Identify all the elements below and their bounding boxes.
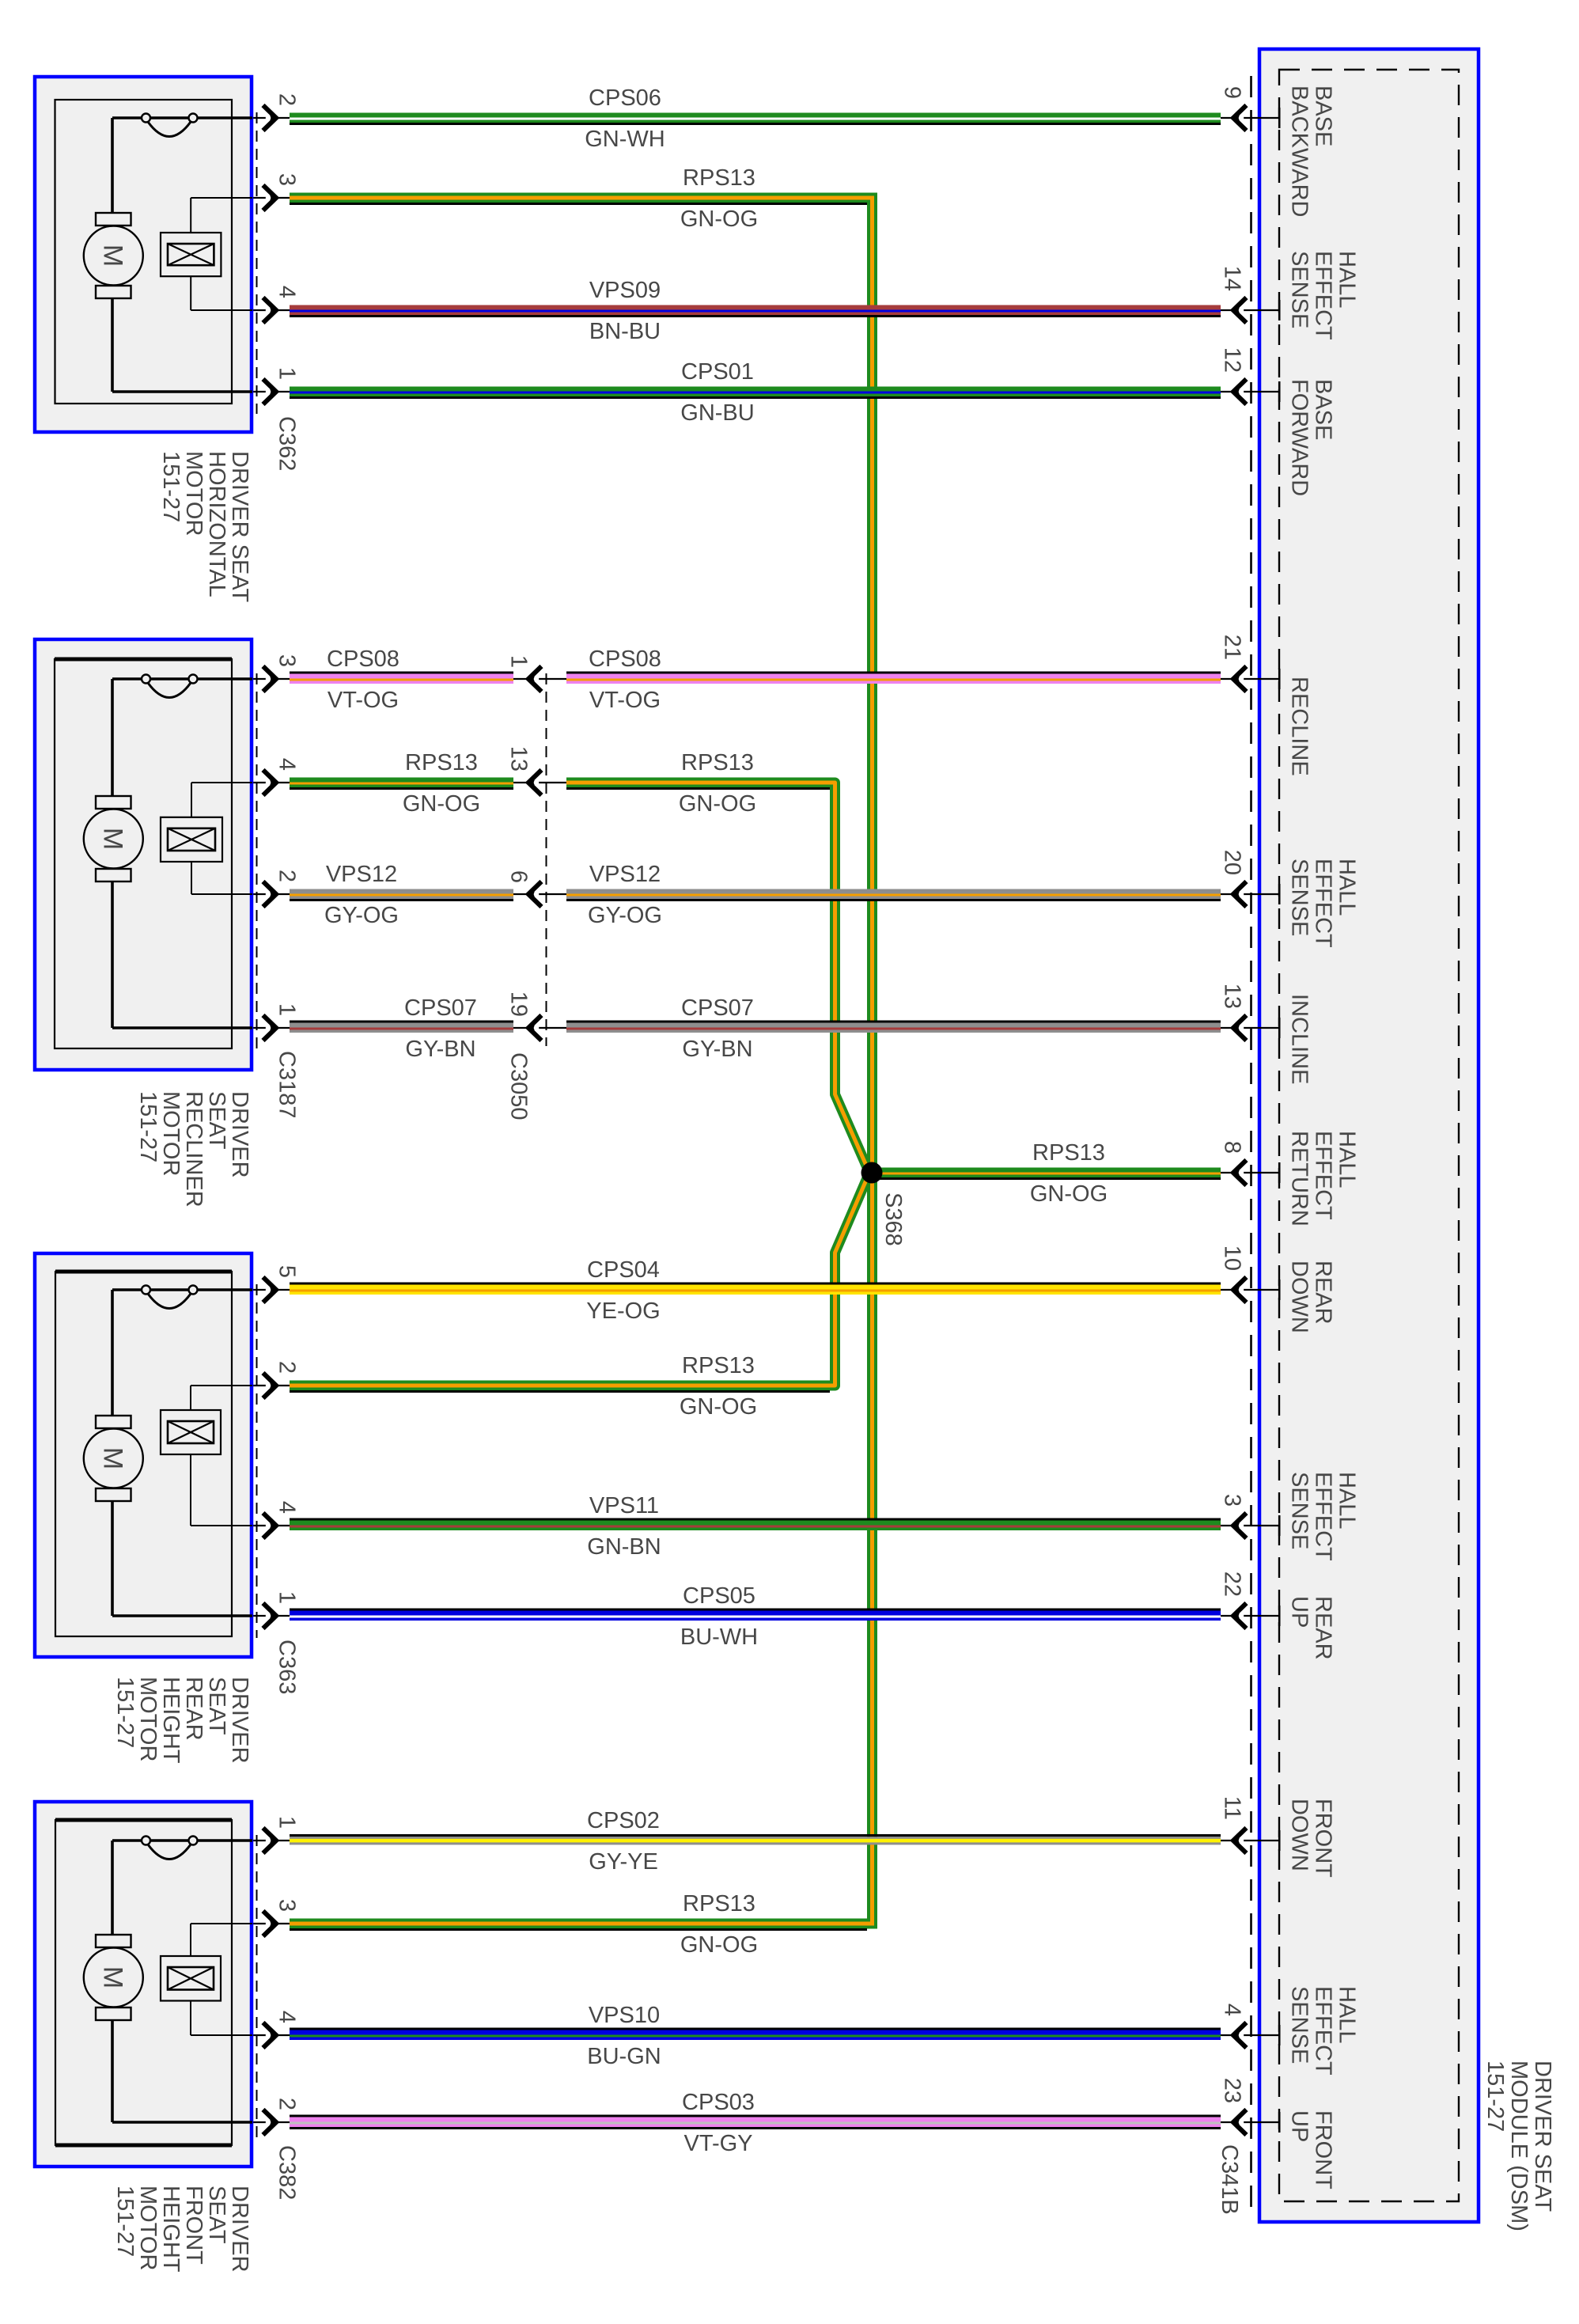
svg-text:SENSE: SENSE — [1287, 1472, 1312, 1549]
svg-text:14: 14 — [1220, 266, 1245, 291]
svg-text:21: 21 — [1220, 635, 1245, 660]
svg-text:2: 2 — [275, 870, 300, 882]
svg-text:13: 13 — [506, 746, 532, 772]
svg-text:GY-OG: GY-OG — [588, 903, 662, 928]
svg-text:FRONT: FRONT — [1311, 2110, 1336, 2189]
svg-text:GN-BN: GN-BN — [587, 1534, 661, 1560]
svg-text:3: 3 — [275, 173, 300, 186]
svg-text:M: M — [97, 828, 127, 850]
svg-text:VT-OG: VT-OG — [589, 688, 661, 713]
svg-text:BU-GN: BU-GN — [587, 2044, 661, 2069]
svg-text:GN-OG: GN-OG — [680, 1932, 758, 1958]
svg-text:CPS08: CPS08 — [327, 646, 399, 672]
svg-text:EFFECT: EFFECT — [1311, 1986, 1336, 2076]
svg-text:GN-OG: GN-OG — [679, 791, 756, 817]
svg-text:151-27: 151-27 — [112, 1677, 138, 1748]
svg-text:RECLINER: RECLINER — [181, 1091, 206, 1207]
svg-text:3: 3 — [1220, 1494, 1245, 1507]
svg-text:FRONT: FRONT — [181, 2186, 206, 2265]
svg-text:C382: C382 — [275, 2145, 300, 2200]
svg-text:BU-WH: BU-WH — [680, 1625, 758, 1650]
svg-text:GY-OG: GY-OG — [324, 903, 399, 928]
svg-text:4: 4 — [275, 1501, 300, 1514]
svg-text:SEAT: SEAT — [204, 1677, 229, 1735]
svg-text:SEAT: SEAT — [204, 1091, 229, 1150]
svg-text:GN-OG: GN-OG — [403, 791, 480, 817]
svg-text:REAR: REAR — [1311, 1261, 1336, 1325]
svg-text:VPS12: VPS12 — [326, 862, 397, 887]
svg-text:RPS13: RPS13 — [1032, 1140, 1105, 1166]
svg-text:CPS02: CPS02 — [587, 1808, 660, 1833]
svg-text:BN-BU: BN-BU — [589, 319, 661, 344]
svg-text:SENSE: SENSE — [1287, 251, 1312, 328]
svg-text:13: 13 — [1220, 984, 1245, 1009]
svg-text:BACKWARD: BACKWARD — [1287, 85, 1312, 218]
svg-text:HORIZONTAL: HORIZONTAL — [204, 451, 229, 597]
svg-text:GN-WH: GN-WH — [585, 127, 665, 152]
svg-text:BASE: BASE — [1311, 85, 1336, 146]
svg-text:151-27: 151-27 — [135, 1091, 161, 1162]
svg-text:23: 23 — [1220, 2078, 1245, 2103]
svg-text:DRIVER SEAT: DRIVER SEAT — [1530, 2061, 1555, 2212]
svg-text:9: 9 — [1220, 86, 1245, 99]
svg-text:FRONT: FRONT — [1311, 1799, 1336, 1878]
svg-text:4: 4 — [275, 758, 300, 771]
svg-text:RPS13: RPS13 — [682, 1353, 755, 1378]
svg-text:EFFECT: EFFECT — [1311, 251, 1336, 340]
svg-text:DRIVER SEAT: DRIVER SEAT — [227, 451, 252, 603]
svg-text:1: 1 — [275, 1816, 300, 1829]
svg-text:UP: UP — [1287, 1596, 1312, 1628]
svg-text:11: 11 — [1220, 1796, 1245, 1820]
svg-text:HALL: HALL — [1335, 251, 1360, 309]
svg-text:INCLINE: INCLINE — [1287, 994, 1312, 1084]
svg-text:2: 2 — [275, 2098, 300, 2110]
svg-text:SEAT: SEAT — [204, 2186, 229, 2244]
svg-text:FORWARD: FORWARD — [1287, 379, 1312, 496]
svg-text:EFFECT: EFFECT — [1311, 859, 1336, 948]
svg-text:S368: S368 — [880, 1192, 906, 1246]
svg-text:CPS06: CPS06 — [589, 85, 661, 111]
svg-text:3: 3 — [275, 1899, 300, 1912]
svg-text:19: 19 — [506, 991, 532, 1017]
svg-text:DOWN: DOWN — [1287, 1261, 1312, 1333]
svg-text:M: M — [97, 245, 127, 267]
svg-text:REAR: REAR — [181, 1677, 206, 1741]
svg-text:1: 1 — [275, 1003, 300, 1016]
svg-text:4: 4 — [1220, 2004, 1245, 2016]
svg-text:VPS09: VPS09 — [589, 278, 661, 303]
svg-text:10: 10 — [1220, 1245, 1245, 1271]
svg-text:SENSE: SENSE — [1287, 859, 1312, 936]
svg-text:SENSE: SENSE — [1287, 1986, 1312, 2064]
svg-text:RPS13: RPS13 — [681, 750, 754, 775]
svg-text:3: 3 — [275, 654, 300, 667]
svg-text:22: 22 — [1220, 1571, 1245, 1597]
svg-text:C341B: C341B — [1217, 2144, 1242, 2215]
svg-text:2: 2 — [275, 1361, 300, 1374]
svg-text:MOTOR: MOTOR — [158, 1091, 184, 1176]
svg-text:DRIVER: DRIVER — [227, 1091, 252, 1178]
svg-text:RETURN: RETURN — [1287, 1131, 1312, 1226]
svg-text:VPS10: VPS10 — [589, 2003, 660, 2028]
svg-text:1: 1 — [506, 655, 532, 668]
svg-text:REAR: REAR — [1311, 1596, 1336, 1660]
svg-text:8: 8 — [1220, 1141, 1245, 1154]
svg-text:RPS13: RPS13 — [683, 165, 755, 191]
svg-text:4: 4 — [275, 286, 300, 298]
svg-text:UP: UP — [1287, 2110, 1312, 2142]
svg-text:HEIGHT: HEIGHT — [158, 2186, 184, 2273]
svg-text:CPS01: CPS01 — [681, 359, 754, 385]
svg-text:MODULE (DSM): MODULE (DSM) — [1506, 2061, 1532, 2231]
svg-text:C3187: C3187 — [275, 1051, 300, 1118]
svg-text:VT-GY: VT-GY — [683, 2131, 752, 2156]
svg-text:GY-BN: GY-BN — [405, 1037, 475, 1062]
svg-text:CPS04: CPS04 — [587, 1257, 660, 1283]
svg-text:HALL: HALL — [1335, 1472, 1360, 1530]
svg-text:151-27: 151-27 — [158, 451, 184, 522]
svg-text:BASE: BASE — [1311, 379, 1336, 440]
svg-text:C362: C362 — [275, 416, 300, 471]
svg-text:GN-BU: GN-BU — [680, 400, 754, 426]
svg-text:GY-BN: GY-BN — [682, 1037, 752, 1062]
svg-text:1: 1 — [275, 1591, 300, 1604]
svg-text:HALL: HALL — [1335, 1131, 1360, 1189]
svg-text:HALL: HALL — [1335, 1986, 1360, 2044]
svg-text:MOTOR: MOTOR — [135, 1677, 161, 1761]
svg-text:VPS12: VPS12 — [589, 862, 661, 887]
svg-text:M: M — [97, 1966, 127, 1988]
svg-text:151-27: 151-27 — [1482, 2061, 1508, 2132]
svg-text:GN-OG: GN-OG — [680, 207, 758, 232]
svg-text:RPS13: RPS13 — [683, 1891, 755, 1916]
svg-text:M: M — [97, 1447, 127, 1469]
svg-text:RPS13: RPS13 — [405, 750, 478, 775]
svg-text:CPS07: CPS07 — [404, 995, 477, 1021]
svg-text:DRIVER: DRIVER — [227, 2186, 252, 2273]
svg-text:RECLINE: RECLINE — [1287, 677, 1312, 776]
svg-text:GN-OG: GN-OG — [680, 1394, 757, 1420]
svg-text:4: 4 — [275, 2011, 300, 2023]
svg-text:CPS05: CPS05 — [683, 1583, 755, 1609]
svg-text:VPS11: VPS11 — [589, 1493, 659, 1518]
svg-text:20: 20 — [1220, 850, 1245, 875]
svg-text:MOTOR: MOTOR — [135, 2186, 161, 2270]
svg-text:VT-OG: VT-OG — [328, 688, 399, 713]
svg-text:C3050: C3050 — [506, 1052, 532, 1120]
svg-text:2: 2 — [275, 93, 300, 106]
svg-text:MOTOR: MOTOR — [181, 451, 206, 536]
svg-text:1: 1 — [275, 367, 300, 380]
svg-text:5: 5 — [275, 1265, 300, 1278]
svg-text:DOWN: DOWN — [1287, 1799, 1312, 1871]
svg-text:CPS03: CPS03 — [682, 2090, 755, 2115]
svg-text:151-27: 151-27 — [112, 2186, 138, 2257]
svg-text:C363: C363 — [275, 1640, 300, 1694]
svg-text:6: 6 — [506, 870, 532, 883]
svg-text:GN-OG: GN-OG — [1030, 1181, 1108, 1207]
svg-text:HEIGHT: HEIGHT — [158, 1677, 184, 1764]
svg-text:EFFECT: EFFECT — [1311, 1472, 1336, 1561]
svg-text:YE-OG: YE-OG — [586, 1298, 660, 1324]
svg-text:HALL: HALL — [1335, 859, 1360, 916]
svg-text:DRIVER: DRIVER — [227, 1677, 252, 1764]
svg-text:12: 12 — [1220, 347, 1245, 373]
svg-text:EFFECT: EFFECT — [1311, 1131, 1336, 1220]
svg-text:CPS08: CPS08 — [589, 646, 661, 672]
svg-text:GY-YE: GY-YE — [589, 1849, 658, 1875]
svg-text:CPS07: CPS07 — [681, 995, 754, 1021]
